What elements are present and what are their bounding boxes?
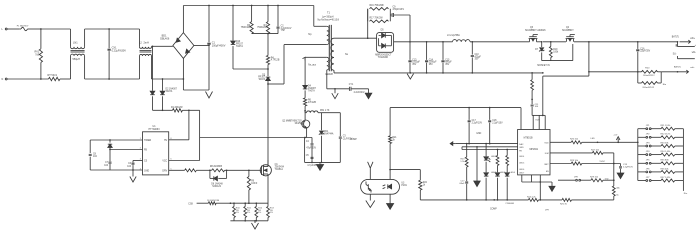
svg-text:VDD: VDD [544, 143, 549, 145]
svg-text:22µF/35V: 22µF/35V [640, 51, 650, 53]
choke L2 [139, 29, 152, 79]
capacitor C13 [408, 42, 420, 73]
svg-text:Ns: Ns [345, 53, 349, 56]
ic U1 [143, 125, 169, 175]
sense array top bus [230, 202, 268, 204]
svg-text:EN: EN [546, 171, 549, 173]
svg-text:35V: 35V [475, 59, 480, 61]
resistor R6 [304, 98, 317, 112]
svg-text:HT7A6063: HT7A6063 [149, 128, 161, 131]
primary ground bus [183, 89, 209, 91]
svg-text:JP5: JP5 [646, 160, 650, 162]
aux winding Ns_aux [303, 57, 329, 85]
ground primary [206, 46, 213, 98]
VCC riser [199, 110, 201, 137]
diode D1 [150, 46, 155, 110]
capacitor CY1 [349, 84, 369, 94]
svg-text:R8 2Ω/0805: R8 2Ω/0805 [210, 166, 223, 168]
svg-text:TO251A: TO251A [275, 168, 284, 171]
secondary top wire [334, 37, 377, 39]
svg-text:L2: L2 [139, 42, 142, 45]
svg-text:C6: C6 [128, 163, 132, 165]
diode D2 [160, 79, 177, 110]
comp bus [420, 199, 528, 210]
svg-text:1%: 1% [270, 212, 273, 214]
timer loop [90, 140, 142, 170]
svg-text:R17 75K/2W: R17 75K/2W [370, 17, 384, 19]
capacitor C19 [617, 164, 633, 179]
wire C9 to rail [409, 15, 411, 42]
resistor R3 [257, 6, 269, 34]
svg-text:BAT(T): BAT(T) [672, 36, 679, 39]
svg-text:R37 1.62k: R37 1.62k [661, 177, 672, 179]
wire bottom rail to CX1 [85, 78, 140, 80]
input terminal L [2, 28, 20, 31]
diode D11 [108, 140, 112, 150]
optocoupler U3 [361, 179, 408, 194]
svg-text:wht+: wht+ [690, 37, 696, 40]
comp label [350, 139, 357, 141]
svg-text:SI4435BDY 2&3D26: SI4435BDY 2&3D26 [525, 30, 546, 32]
svg-text:FB1 1.7K: FB1 1.7K [320, 110, 330, 112]
jumper JP5 resistor R35 [638, 160, 684, 165]
svg-text:JP4: JP4 [646, 151, 650, 153]
resistor R16 [368, 5, 389, 38]
svg-text:TO220AB: TO220AB [378, 56, 389, 59]
svg-text:MT8D1B: MT8D1B [524, 138, 533, 140]
resistor R12 [255, 203, 263, 221]
svg-text:10K/F: 10K/F [251, 183, 258, 185]
svg-text:C5: C5 [306, 155, 310, 157]
svg-text:F1 5A/250V: F1 5A/250V [17, 25, 29, 28]
svg-text:Q3: Q3 [530, 27, 534, 29]
svg-text:DRV: DRV [162, 171, 167, 173]
svg-text:750K/2W: 750K/2W [257, 27, 267, 29]
input terminal N [2, 78, 49, 81]
svg-text:COMP: COMP [350, 139, 357, 141]
ground opto left [366, 194, 375, 207]
svg-text:1N4744A: 1N4744A [324, 133, 334, 136]
svg-text:JP7: JP7 [646, 177, 650, 179]
svg-text:47µF/25V: 47µF/25V [306, 148, 316, 150]
shunt R21 [638, 72, 667, 89]
svg-text:FB: FB [519, 151, 522, 153]
transformer T1 labels [318, 12, 340, 22]
svg-text:+: + [695, 45, 697, 47]
svg-text:SOD123: SOD123 [212, 186, 221, 188]
svg-text:2.2nF/4KV: 2.2nF/4KV [354, 92, 365, 94]
svg-text:R34 1.43k: R34 1.43k [661, 151, 672, 153]
resistor R30 [612, 153, 620, 200]
svg-text:750K/2W: 750K/2W [241, 27, 251, 29]
capacitor C4 [306, 138, 317, 163]
ground CY1 left [332, 89, 338, 99]
svg-text:CY1: CY1 [349, 84, 354, 86]
svg-text:R33 53k: R33 53k [661, 142, 670, 144]
return terminal [661, 65, 695, 73]
led chain 3 [505, 150, 516, 200]
svg-text:R1 20K/2W: R1 20K/2W [171, 107, 183, 109]
svg-text:1k: 1k [423, 184, 426, 186]
svg-text:C7: C7 [105, 162, 109, 164]
svg-text:1.5k: 1.5k [460, 161, 465, 163]
opto collector [368, 162, 373, 180]
svg-text:L: L [2, 28, 4, 31]
row2 R27 [550, 149, 614, 154]
ground secondary [407, 74, 414, 80]
wire rail to VDD [542, 42, 590, 116]
svg-text:5VDC: 5VDC [600, 161, 606, 163]
mosfet Q1 [249, 160, 285, 177]
svg-text:104: 104 [535, 106, 539, 108]
svg-text:TIMER: TIMER [144, 140, 151, 142]
net +5V arrow [613, 134, 620, 142]
ground aux [317, 162, 324, 170]
svg-text:P181: P181 [401, 185, 407, 187]
svg-text:5(-): 5(-) [673, 53, 677, 55]
wire L2 to bridge AC1 [152, 45, 173, 47]
svg-text:2mH: 2mH [144, 42, 149, 45]
svg-text:1%: 1% [247, 212, 250, 214]
zener ZD1 [319, 113, 334, 163]
svg-text:104: 104 [104, 165, 109, 167]
svg-text:Y5P: Y5P [281, 30, 286, 32]
wire L to choke [40, 28, 70, 30]
svg-text:JP1: JP1 [646, 125, 650, 127]
resistor R25 [560, 198, 614, 205]
resistor R19 [549, 41, 559, 61]
gnd stem [474, 147, 480, 187]
svg-text:JP2: JP2 [646, 134, 650, 136]
svg-text:D5: D5 [381, 30, 385, 32]
jumper JP6 resistor R36 [638, 168, 684, 173]
svg-text:Q4: Q4 [566, 27, 570, 29]
svg-text:Rtn: Rtn [663, 83, 667, 86]
svg-text:JP9: JP9 [545, 210, 549, 212]
svg-text:100mΩ2512: 100mΩ2512 [643, 75, 656, 77]
snubber node wire [252, 33, 278, 35]
secondary ground bus [334, 70, 543, 73]
ground opto LED [387, 194, 394, 209]
svg-text:HV: HV [164, 140, 168, 142]
svg-text:LED4: LED4 [510, 172, 516, 174]
jumper ladder right bus [683, 129, 688, 195]
vcc line [200, 137, 312, 139]
inductor FB1 [305, 110, 330, 113]
svg-text:TA07A: TA07A [236, 45, 243, 48]
svg-text:47F12B: 47F12B [308, 102, 316, 104]
svg-text:2.2µF/10V: 2.2µF/10V [492, 122, 503, 124]
wire switch node [267, 45, 284, 167]
primary winding Np [284, 6, 329, 45]
svg-text:5k: 5k [616, 194, 619, 196]
svg-text:LED5: LED5 [519, 162, 525, 164]
sense pin 2 [673, 51, 697, 59]
svg-text:SI4435BDY: SI4435BDY [562, 30, 574, 32]
gnd net label [476, 133, 481, 135]
U5 left wire 3 [462, 147, 518, 151]
jumper JP7 resistor R37 [638, 177, 684, 182]
capacitor C3 [322, 113, 353, 163]
wire L2 to bridge AC2 [152, 56, 184, 80]
U5 left wire 1 [456, 143, 518, 145]
svg-text:VDD: VDD [535, 119, 540, 121]
U5 bottom pins [522, 175, 552, 201]
wire aux return [327, 70, 349, 90]
svg-text:35V: 35V [445, 64, 450, 66]
svg-text:550µH: 550µH [73, 58, 81, 61]
svg-text:104: 104 [127, 166, 132, 168]
svg-text:GND: GND [144, 171, 149, 173]
svg-text:FB: FB [144, 150, 147, 152]
resistor R17 [368, 9, 391, 23]
resistor R10 [233, 203, 241, 221]
capacitor C5 [306, 155, 319, 167]
capacitor C14 [425, 42, 437, 73]
svg-text:Ns_aux: Ns_aux [308, 64, 317, 66]
svg-text:LED6: LED6 [519, 169, 525, 171]
inductor L3 [447, 34, 470, 42]
resistor R24 [527, 197, 562, 212]
diode D3 [258, 69, 270, 84]
wire bridge minus down [183, 58, 185, 90]
svg-text:VCC: VCC [162, 161, 167, 163]
bridge rectifier BD1 [160, 33, 194, 59]
svg-text:1%: 1% [236, 212, 239, 214]
svg-text:200mΩ2512: 200mΩ2512 [642, 87, 655, 89]
sense pin 1 [676, 42, 696, 47]
svg-text:C3: C3 [343, 136, 347, 138]
thermistor RT1 [48, 74, 71, 81]
wire R1 to HV pin [169, 110, 189, 140]
svg-text:GND: GND [519, 147, 524, 149]
wire D10 to clamp node [233, 68, 268, 70]
vdd wire [390, 107, 521, 130]
svg-text:U1: U1 [152, 125, 156, 128]
capacitor C9 [390, 7, 410, 17]
svg-text:CS: CS [144, 161, 148, 163]
U1 pin numbers [140, 138, 172, 171]
svg-text:ILIM: ILIM [545, 153, 549, 155]
resistor R9 [247, 169, 258, 204]
output rail 2 [470, 41, 529, 43]
jumper JP4 resistor R34 [638, 151, 684, 156]
jumper JP2 resistor R32 [638, 134, 684, 139]
svg-text:CS8: CS8 [188, 203, 193, 205]
capacitor C18 [488, 108, 503, 144]
svg-text:N: N [2, 78, 4, 81]
row4 R29 [558, 177, 615, 182]
svg-text:R25 3k: R25 3k [560, 204, 568, 206]
capacitor C6 [127, 161, 134, 171]
svg-text:470pF/1KV: 470pF/1KV [393, 9, 405, 11]
svg-text:68nF: 68nF [460, 183, 466, 185]
resistor R13 [267, 177, 275, 221]
wire top rail to CX1 [85, 28, 140, 30]
svg-text:LED7: LED7 [519, 172, 525, 174]
Q3 aux chain [531, 72, 540, 115]
zener D7 [535, 41, 544, 61]
capacitor C17 [468, 108, 483, 144]
capacitor C15 [441, 42, 452, 73]
wire bridge AC2 stub [194, 45, 210, 47]
cs wire [133, 160, 143, 162]
svg-text:R36 40k: R36 40k [661, 168, 670, 170]
transformer core [329, 25, 331, 71]
startup bus [153, 109, 173, 111]
svg-text:2.2µF/10V: 2.2µF/10V [472, 122, 483, 124]
diode D6 [210, 170, 227, 188]
svg-text:R24 2.2k: R24 2.2k [527, 197, 536, 199]
svg-text:JP3: JP3 [646, 142, 650, 144]
svg-text:COMP: COMP [490, 208, 497, 210]
row3 R28 [550, 160, 621, 165]
svg-text:wht-: wht- [690, 66, 694, 69]
gate wire Q4 [537, 44, 572, 67]
svg-text:35V: 35V [412, 64, 417, 66]
svg-text:40k: 40k [616, 187, 620, 189]
output rail 3 [574, 41, 678, 43]
svg-text:DBL406: DBL406 [160, 38, 170, 41]
mosfet Q4 [543, 27, 575, 42]
resistor R22 [390, 170, 428, 200]
svg-text:1%: 1% [258, 212, 261, 214]
secondary winding Ns [331, 38, 349, 70]
top DC bus [183, 5, 313, 7]
capacitor C10 [471, 42, 482, 73]
svg-text:wht-: wht- [692, 51, 697, 54]
svg-text:R26 10k: R26 10k [570, 139, 579, 141]
resistor R4 [266, 34, 279, 70]
svg-text:R27 10k: R27 10k [591, 149, 600, 151]
svg-text:8: 8 [171, 138, 172, 140]
diode D4 [303, 85, 317, 98]
sense array bottom bus [230, 220, 268, 222]
svg-text:0.22µF/630V: 0.22µF/630V [112, 49, 127, 52]
svg-text:D7: D7 [535, 49, 539, 51]
vcc pin wire [169, 138, 200, 161]
svg-text:2k: 2k [392, 139, 395, 141]
svg-text:L3 2.2µH/8A: L3 2.2µH/8A [447, 34, 460, 37]
jumper JP1 resistor R31 [638, 125, 684, 130]
U5 vdd stubs [532, 115, 545, 130]
svg-text:BAT(T): BAT(T) [674, 65, 681, 68]
svg-text:R16 75K/2WF: R16 75K/2WF [370, 5, 385, 7]
arrow GND left [450, 142, 456, 146]
svg-text:100µF/400V: 100µF/400V [212, 44, 226, 47]
terminal BAT+ [672, 36, 696, 44]
svg-text:DAC: DAC [519, 143, 524, 146]
transistor Q2 [282, 111, 310, 138]
svg-text:TA07A: TA07A [258, 78, 265, 81]
ground U1 [130, 170, 136, 182]
svg-text:C4: C4 [306, 141, 310, 143]
svg-text:Q2 MMBTA06LT1G: Q2 MMBTA06LT1G [282, 120, 302, 123]
svg-text:LED4: LED4 [519, 156, 525, 158]
resistor R21b [389, 108, 398, 180]
resistor R7 [185, 169, 212, 172]
svg-text:+5V: +5V [613, 134, 617, 136]
core label [326, 74, 334, 76]
output rail [394, 41, 453, 43]
shunt R20 [642, 67, 662, 77]
resistor R2 [241, 6, 253, 34]
svg-text:C8: C8 [93, 153, 97, 155]
svg-text:R35 806: R35 806 [661, 160, 670, 162]
choke L1 [71, 29, 85, 79]
jumper JP3 resistor R33 [638, 142, 684, 147]
svg-text:R-310R/C86: R-310R/C86 [207, 200, 220, 202]
capacitor C8 [89, 153, 98, 158]
svg-text:RT 5D-9: RT 5D-9 [48, 74, 58, 77]
svg-text:U3: U3 [401, 182, 405, 184]
svg-text:LN1: LN1 [73, 42, 78, 45]
ground CY1 right [365, 89, 372, 99]
svg-text:100k: 100k [553, 51, 559, 53]
svg-text:JP6: JP6 [646, 168, 650, 170]
wire bridge plus to top bus [182, 6, 184, 33]
aux gnd wire [305, 138, 341, 164]
mosfet Q3 [525, 27, 546, 42]
diode D10 [231, 6, 244, 70]
resistor R11 [244, 203, 252, 221]
svg-text:ISET: ISET [544, 164, 549, 166]
svg-text:R28 10k: R28 10k [570, 160, 579, 162]
capacitor CX1 [108, 29, 127, 79]
svg-text:VID: VID [605, 178, 609, 180]
row1 R26 [550, 138, 638, 144]
fuse F1 [17, 25, 41, 31]
U5 left wire 2 [462, 146, 518, 148]
ic U5 [518, 130, 550, 175]
led chain 1 [484, 144, 497, 200]
return wire [589, 71, 642, 73]
svg-text:7d9: 7d9 [35, 54, 40, 57]
svg-text:JP8: JP8 [574, 177, 578, 179]
svg-text:R31 13.3k: R31 13.3k [661, 125, 672, 127]
svg-text:4.7F12B: 4.7F12B [271, 60, 280, 62]
svg-text:Np:Ns:Naux=40:15:8: Np:Ns:Naux=40:15:8 [318, 20, 340, 22]
capacitor C7 [104, 150, 111, 171]
resistor R1 [171, 107, 200, 112]
resistor R8 [209, 166, 249, 172]
svg-text:GND: GND [476, 133, 481, 135]
capacitor C1 [207, 6, 225, 48]
capacitor C16 [636, 42, 650, 72]
svg-text:35V: 35V [429, 64, 434, 66]
led chain 2 [495, 150, 506, 200]
drv wire [169, 169, 185, 171]
svg-text:R29 10k: R29 10k [590, 177, 599, 179]
fb wire [109, 139, 142, 150]
rc chain R23 [460, 144, 469, 200]
dual diode D5 [375, 30, 393, 59]
svg-text:MP2841: MP2841 [530, 149, 539, 151]
svg-text:LED: LED [591, 138, 596, 140]
ground sense [252, 220, 259, 229]
svg-text:2.2µF/10V: 2.2µF/10V [623, 166, 633, 168]
varistor RV1 [34, 29, 42, 79]
svg-text:TA07A: TA07A [166, 90, 173, 93]
svg-text:276/66M: 276/66M [505, 203, 514, 205]
svg-text:R32 26.7k: R32 26.7k [661, 134, 672, 136]
svg-text:104: 104 [93, 156, 98, 158]
svg-text:R20: R20 [645, 67, 650, 69]
svg-text:Np: Np [308, 33, 312, 36]
svg-text:Rtn: Rtn [684, 192, 688, 195]
svg-text:T1: T1 [327, 12, 331, 15]
capacitor C2 [277, 6, 292, 34]
